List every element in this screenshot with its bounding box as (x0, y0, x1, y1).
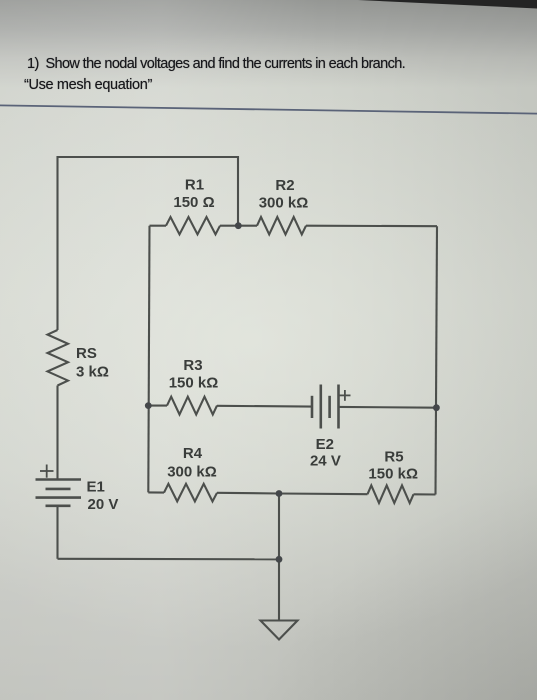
svg-text:R1: R1 (185, 177, 204, 194)
dark photo edge wedge top-right (358, 0, 537, 9)
wire left rail upper (56, 156, 58, 330)
battery E1 (36, 480, 82, 506)
resistor R1 (166, 217, 220, 234)
node dot R1-R2 junction (235, 222, 242, 229)
wire top horizontal (58, 156, 239, 158)
node dot E1 bottom junction (276, 556, 283, 563)
plus sign E2 (340, 390, 351, 401)
svg-text:R2: R2 (275, 177, 294, 194)
wire R3 left lead (148, 405, 167, 407)
resistor R2 (257, 217, 306, 234)
wire middle rail (148, 226, 149, 493)
battery E2 (312, 385, 339, 429)
resistor R3 (167, 397, 217, 415)
title line 2 (24, 77, 152, 93)
wire R1 left lead (150, 225, 167, 227)
svg-text:24 V: 24 V (310, 453, 341, 470)
svg-text:R4: R4 (183, 445, 203, 462)
wire R4 to ground node (217, 492, 279, 495)
resistor RS (48, 330, 69, 386)
resistor R4 (164, 484, 217, 502)
wire ground rail vertical (278, 494, 280, 621)
blue horizontal rule (0, 105, 537, 113)
wire R5 to right rail (414, 493, 436, 495)
svg-text:E2: E2 (316, 436, 334, 453)
svg-text:150 kΩ: 150 kΩ (169, 375, 219, 392)
wire ground node to R5 (279, 492, 368, 495)
plus sign E1 (40, 465, 54, 478)
svg-text:E1: E1 (87, 479, 105, 496)
node dot R4-R5 ground junction (276, 490, 283, 497)
title line 1 (27, 56, 405, 72)
svg-text:R3: R3 (183, 357, 202, 374)
resistor R5 (368, 485, 414, 503)
wire left rail lower (56, 386, 58, 480)
node dot R3 left junction (145, 402, 152, 409)
wire right rail (436, 226, 438, 494)
svg-text:RS: RS (76, 345, 97, 362)
node dot E2 right junction (433, 404, 440, 411)
wire E1 bottom lead (56, 506, 58, 559)
wire E2 to right rail (339, 406, 437, 409)
wire R2 to right rail (306, 225, 437, 228)
svg-text:R5: R5 (384, 449, 403, 466)
wire R1 to R2 (220, 225, 257, 227)
svg-text:20 V: 20 V (88, 496, 119, 513)
svg-text:300 kΩ: 300 kΩ (259, 195, 309, 212)
svg-text:300 kΩ: 300 kΩ (167, 464, 217, 481)
ground symbol (261, 621, 298, 640)
wire bottom left horizontal (58, 558, 280, 561)
wire R4 left lead (148, 491, 164, 493)
wire R3 to E2 (217, 405, 312, 408)
svg-text:150 Ω: 150 Ω (173, 194, 214, 211)
svg-text:3 kΩ: 3 kΩ (76, 364, 109, 381)
wire drop from top to R1 node (237, 156, 239, 226)
svg-text:150 kΩ: 150 kΩ (368, 466, 418, 483)
